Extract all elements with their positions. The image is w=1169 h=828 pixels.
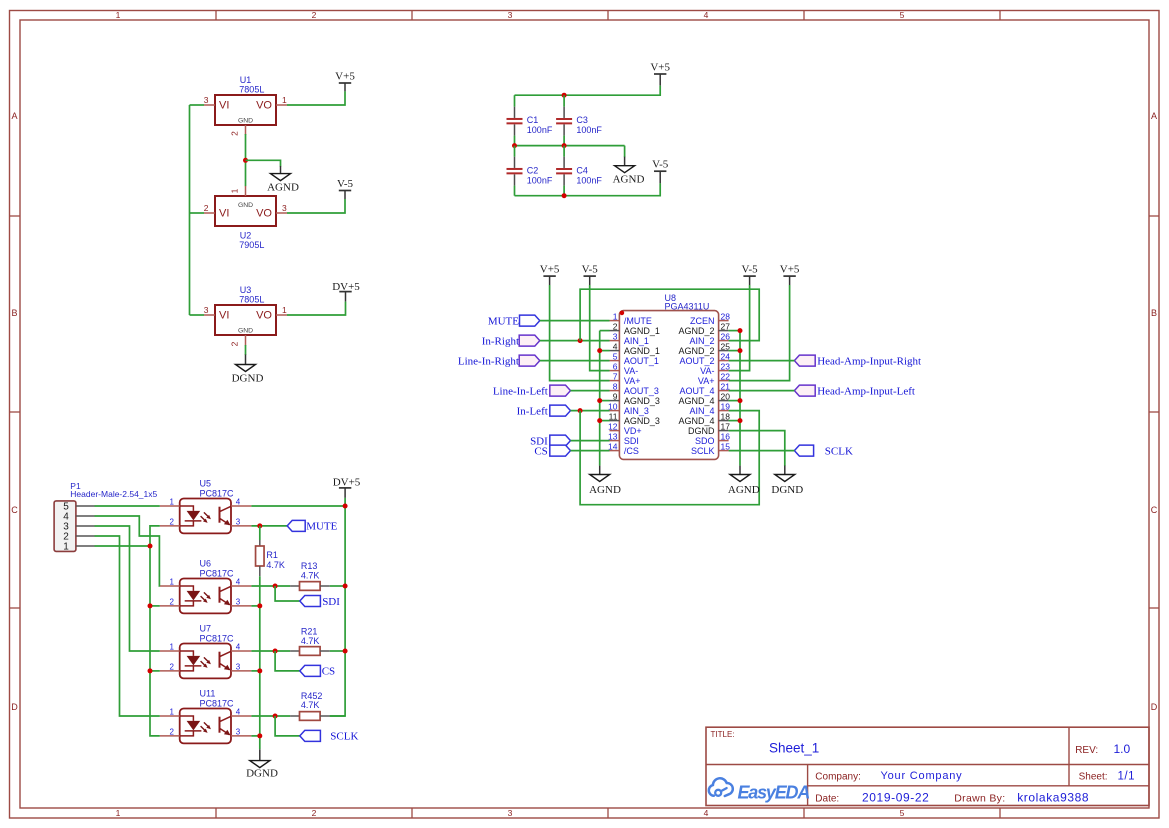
svg-text:1: 1 xyxy=(170,643,175,652)
voltage regulator U2 7905L xyxy=(215,196,276,250)
svg-text:CS: CS xyxy=(534,445,547,457)
U1 pin 2 GND xyxy=(230,125,246,136)
U8 pin 22 VA+ xyxy=(698,371,730,386)
svg-text:4.7K: 4.7K xyxy=(301,571,320,581)
svg-text:3: 3 xyxy=(204,95,209,105)
junction DGND bus U6.3 xyxy=(257,603,262,608)
svg-text:1: 1 xyxy=(170,498,175,507)
wire P1.1 to cathode bus xyxy=(95,545,151,547)
frame column labels xyxy=(116,10,905,818)
svg-text:MUTE: MUTE xyxy=(306,521,337,533)
wire pin21 AOUT_4 to Head-Amp-Input-Left xyxy=(729,390,795,392)
op-amp volume IC U8 PGA4311U body xyxy=(619,293,718,459)
svg-text:4: 4 xyxy=(704,808,709,818)
svg-text:4: 4 xyxy=(704,10,709,20)
junction port tap R21 xyxy=(273,649,278,654)
wire U pin4 row R21 xyxy=(251,650,345,652)
junction mid rail C3 xyxy=(562,143,567,148)
svg-text:U2: U2 xyxy=(240,231,252,241)
junction cathode bus U6.2 xyxy=(148,603,153,608)
svg-text:PGA4311U: PGA4311U xyxy=(665,301,710,311)
svg-text:Your Company: Your Company xyxy=(881,770,963,782)
U8 pin 16 SDO xyxy=(695,431,730,446)
wire U1 input rail vertical xyxy=(189,105,191,315)
wire MUTE to pin1 xyxy=(540,320,610,322)
U6 pin 3 xyxy=(231,597,251,606)
U8 pin1 marker dot xyxy=(620,311,625,316)
svg-text:VO: VO xyxy=(256,310,272,322)
svg-text:DGND: DGND xyxy=(688,426,715,436)
svg-text:1: 1 xyxy=(613,311,618,321)
optocoupler U11 PC817C xyxy=(180,689,234,744)
U7 pin 2 xyxy=(160,662,180,671)
svg-text:VI: VI xyxy=(219,310,229,322)
svg-text:5: 5 xyxy=(900,808,905,818)
svg-text:SDO: SDO xyxy=(695,436,715,446)
svg-text:3: 3 xyxy=(613,331,618,341)
U8 pin 14 /CS xyxy=(608,441,639,456)
header connector P1 Header-Male-2.54_1x5 xyxy=(54,481,157,552)
U11 pin 4 xyxy=(231,708,251,717)
svg-text:V+5: V+5 xyxy=(335,71,355,83)
svg-text:GND: GND xyxy=(238,327,253,334)
U8 pin 19 AIN_4 xyxy=(689,401,730,416)
port Line-In-Left xyxy=(493,385,571,397)
wire AGND branch xyxy=(246,160,281,166)
svg-text:AIN_1: AIN_1 xyxy=(624,336,649,346)
P1 pin 4 xyxy=(63,512,94,523)
svg-text:4: 4 xyxy=(236,498,241,507)
wire In-Right to pin3 xyxy=(540,340,610,342)
junction mid rail C1 xyxy=(512,143,517,148)
svg-text:AGND_4: AGND_4 xyxy=(678,396,714,406)
U8 pin 1 /MUTE xyxy=(610,311,652,326)
U8 pin 3 AIN_1 xyxy=(610,331,649,346)
wire P1.3 to U7 pin1 xyxy=(95,526,160,651)
frame row labels xyxy=(11,111,1158,712)
U6 pin 1 xyxy=(160,578,180,587)
resistor R452 4.7K xyxy=(290,691,330,720)
wire U5 pin3 to MUTE port xyxy=(251,525,287,527)
svg-text:DV+5: DV+5 xyxy=(332,281,360,293)
power flag DV+5 at optos xyxy=(333,476,361,498)
svg-text:AIN_4: AIN_4 xyxy=(689,406,714,416)
wire branch to SDI port xyxy=(275,586,300,601)
svg-text:AGND: AGND xyxy=(728,484,760,496)
svg-text:1.0: 1.0 xyxy=(1114,742,1131,756)
U8 pin 21 AOUT_4 xyxy=(679,381,730,396)
wire U3 GND down xyxy=(245,345,247,355)
junction cathode bus P1.1 xyxy=(148,544,153,549)
svg-text:16: 16 xyxy=(721,431,731,441)
ground AGND at caps xyxy=(613,157,645,186)
svg-text:VO: VO xyxy=(256,100,272,112)
junction DGND bus U11.3 xyxy=(257,733,262,738)
svg-text:100nF: 100nF xyxy=(527,176,553,186)
svg-text:PC817C: PC817C xyxy=(200,569,235,579)
svg-text:V-5: V-5 xyxy=(582,264,599,276)
svg-text:C4: C4 xyxy=(576,166,588,176)
U8 pin 24 AOUT_2 xyxy=(679,351,730,366)
svg-text:U6: U6 xyxy=(200,559,212,569)
svg-text:AGND_2: AGND_2 xyxy=(678,326,714,336)
power flag V-5 at U2 xyxy=(337,178,354,199)
svg-text:1: 1 xyxy=(230,188,240,193)
wire Line-In-Left to pin8 xyxy=(571,390,610,392)
svg-text:1: 1 xyxy=(116,10,121,20)
svg-text:AOUT_3: AOUT_3 xyxy=(624,386,659,396)
junction bottom rail C4 xyxy=(562,193,567,198)
svg-text:U7: U7 xyxy=(200,624,212,634)
svg-text:Sheet_1: Sheet_1 xyxy=(769,741,819,756)
svg-text:VI: VI xyxy=(219,208,229,220)
svg-text:3: 3 xyxy=(236,597,241,606)
port MUTE at opto xyxy=(287,520,337,532)
U8 pin 25 AGND_2 xyxy=(678,341,730,356)
svg-text:B: B xyxy=(11,308,17,318)
U11 pin 3 xyxy=(231,727,251,736)
svg-text:2: 2 xyxy=(312,808,317,818)
svg-text:3: 3 xyxy=(508,10,513,20)
title block Date and Drawn By xyxy=(815,790,1089,804)
port SCLK at U8 xyxy=(794,445,853,457)
svg-text:11: 11 xyxy=(609,411,618,421)
svg-text:MUTE: MUTE xyxy=(488,315,519,327)
svg-text:CS: CS xyxy=(322,666,335,678)
svg-text:V+5: V+5 xyxy=(650,62,670,74)
U2 pin 3 VO xyxy=(276,203,287,213)
svg-text:3: 3 xyxy=(204,305,209,315)
junction right AGND pin27 xyxy=(738,328,743,333)
junction DGND bus U7.3 xyxy=(257,668,262,673)
svg-text:AGND_4: AGND_4 xyxy=(678,416,714,426)
svg-text:7805L: 7805L xyxy=(239,84,264,94)
power flag V+5 left of U8 xyxy=(540,264,560,285)
svg-text:4.7K: 4.7K xyxy=(301,636,320,646)
svg-text:2: 2 xyxy=(170,597,175,606)
wire mid rail AGND xyxy=(515,145,625,147)
svg-text:8: 8 xyxy=(613,381,618,391)
capacitor C1 100nF xyxy=(507,95,553,145)
svg-text:Head-Amp-Input-Right: Head-Amp-Input-Right xyxy=(817,355,921,367)
power flag V+5 at caps xyxy=(650,62,670,86)
P1 pin 1 xyxy=(63,542,94,553)
U5 pin 4 xyxy=(231,498,251,507)
svg-text:3: 3 xyxy=(508,808,513,818)
U8 pin 18 AGND_4 xyxy=(678,411,730,426)
svg-text:5: 5 xyxy=(613,351,618,361)
svg-text:U5: U5 xyxy=(200,479,212,489)
svg-text:D: D xyxy=(11,702,18,712)
svg-text:R21: R21 xyxy=(301,627,318,637)
svg-text:U11: U11 xyxy=(200,689,216,699)
U6 pin 4 xyxy=(231,578,251,587)
optocoupler U7 PC817C xyxy=(180,624,234,679)
svg-text:SDI: SDI xyxy=(322,596,340,608)
svg-text:AOUT_1: AOUT_1 xyxy=(624,356,659,366)
svg-text:7905L: 7905L xyxy=(239,240,264,250)
junction R1 top tap xyxy=(257,523,262,528)
junction right AGND pin25 xyxy=(738,348,743,353)
wire U1 VO to V+5 xyxy=(287,91,345,105)
svg-text:4: 4 xyxy=(236,578,241,587)
svg-text:C2: C2 xyxy=(527,166,539,176)
wire branch to SCLK port xyxy=(275,716,300,736)
svg-text:2: 2 xyxy=(312,10,317,20)
ground AGND below U8 right xyxy=(728,466,760,496)
svg-text:VI: VI xyxy=(219,100,229,112)
svg-text:AIN_2: AIN_2 xyxy=(689,336,714,346)
svg-text:3: 3 xyxy=(282,203,287,213)
wire DGND bus at optos xyxy=(251,576,259,749)
svg-text:krolaka9388: krolaka9388 xyxy=(1017,790,1089,804)
U8 pin 13 SDI xyxy=(608,431,639,446)
wire V+5 to U8 pin22 VA+ xyxy=(729,285,790,381)
svg-text:1: 1 xyxy=(170,708,175,717)
U7 pin 1 xyxy=(160,643,180,652)
svg-text:4.7K: 4.7K xyxy=(266,560,285,570)
svg-text:AOUT_4: AOUT_4 xyxy=(679,386,714,396)
svg-text:ZCEN: ZCEN xyxy=(690,316,715,326)
U8 pin 4 AGND_1 xyxy=(610,341,660,356)
port SDI at opto xyxy=(300,596,340,608)
port MUTE at U8 xyxy=(488,315,540,327)
P1 pin 2 xyxy=(63,532,94,543)
svg-text:1: 1 xyxy=(63,542,69,553)
wire branch to CS port xyxy=(275,651,300,671)
junction at U1/U2 GND node xyxy=(243,158,248,163)
wire U pin4 row R452 xyxy=(251,715,345,717)
U1 pin 1 VO xyxy=(276,95,287,105)
svg-text:A: A xyxy=(1151,111,1157,121)
svg-text:V-5: V-5 xyxy=(337,178,354,190)
power flag V-5 left of U8 xyxy=(582,264,599,285)
junction top rail C3 xyxy=(562,93,567,98)
svg-text:C1: C1 xyxy=(527,115,539,125)
svg-text:AGND: AGND xyxy=(589,484,621,496)
junction right AGND pin18 xyxy=(738,418,743,423)
svg-text:V+5: V+5 xyxy=(780,264,800,276)
wire U2 pin2 stub xyxy=(190,212,205,214)
svg-text:Drawn By:: Drawn By: xyxy=(954,793,1005,805)
power flag V+5 at U1 xyxy=(335,71,355,92)
svg-text:2: 2 xyxy=(230,341,240,346)
svg-text:12: 12 xyxy=(608,421,618,431)
wire U5 pin4 to DV+5 xyxy=(251,505,345,507)
wire U1 pin3 stub xyxy=(190,104,205,106)
P1 pin 5 xyxy=(63,502,94,513)
U1 pin 3 VI xyxy=(204,95,215,105)
svg-text:4: 4 xyxy=(236,708,241,717)
wire V-5 to U8 pin23 VA- xyxy=(729,285,750,371)
svg-text:PC817C: PC817C xyxy=(200,699,235,709)
power flag V-5 at caps xyxy=(652,159,669,184)
svg-text:9: 9 xyxy=(613,391,618,401)
svg-text:EasyEDA: EasyEDA xyxy=(738,783,810,803)
wire U pin4 row R13 xyxy=(251,585,345,587)
U5 pin 3 xyxy=(231,517,251,526)
svg-text:GND: GND xyxy=(238,117,253,124)
ground AGND below U8 left xyxy=(589,466,621,496)
junction left AGND pin4 xyxy=(597,348,602,353)
voltage regulator U3 7805L xyxy=(215,285,276,335)
svg-text:100nF: 100nF xyxy=(576,125,602,135)
svg-text:2: 2 xyxy=(230,131,240,136)
optocoupler U5 PC817C xyxy=(180,479,234,534)
ground DGND at optos xyxy=(246,749,278,779)
port In-Left xyxy=(517,405,571,417)
resistor R21 4.7K xyxy=(290,627,330,656)
svg-text:2: 2 xyxy=(170,662,175,671)
U2 pin 2 VI xyxy=(204,203,215,213)
wire U3 VO to DV+5 xyxy=(287,302,346,315)
svg-text:/CS: /CS xyxy=(624,446,639,456)
svg-text:5: 5 xyxy=(900,10,905,20)
voltage regulator U1 7805L xyxy=(215,75,276,125)
wire U1 GND to U2 GND xyxy=(245,134,247,186)
wire AGND branch at caps xyxy=(624,146,626,158)
svg-text:AGND_1: AGND_1 xyxy=(624,346,660,356)
svg-text:2: 2 xyxy=(170,727,175,736)
junction In-Left / AIN_4 tap xyxy=(578,408,583,413)
svg-text:VD+: VD+ xyxy=(624,426,642,436)
wire In-Right to pin26 AIN_2 xyxy=(580,289,759,340)
wire U8 left AGND bus xyxy=(600,331,610,466)
wire U8 pin17 DGND xyxy=(729,431,785,466)
optocoupler U6 PC817C xyxy=(180,559,234,614)
svg-text:2: 2 xyxy=(170,517,175,526)
U11 pin 2 xyxy=(160,727,180,736)
wire pin15 SCLK to port xyxy=(729,450,795,452)
svg-text:SCLK: SCLK xyxy=(330,731,358,743)
port Head-Amp-Input-Right xyxy=(794,355,921,367)
svg-text:4: 4 xyxy=(236,643,241,652)
wire U3 pin3 stub xyxy=(190,314,205,316)
svg-text:2: 2 xyxy=(613,321,618,331)
svg-text:Line-In-Left: Line-In-Left xyxy=(493,385,548,397)
power flag V+5 right of U8 xyxy=(780,264,800,285)
svg-text:2019-09-22: 2019-09-22 xyxy=(862,790,929,804)
svg-text:VO: VO xyxy=(256,208,272,220)
U8 pin 7 VA+ xyxy=(610,371,641,386)
port CS at U8 xyxy=(534,445,570,457)
wire V+5 top rail xyxy=(515,86,661,96)
svg-text:AIN_3: AIN_3 xyxy=(624,406,649,416)
svg-text:3: 3 xyxy=(236,662,241,671)
U5 pin 2 xyxy=(160,517,180,526)
svg-text:SCLK: SCLK xyxy=(691,446,715,456)
U8 pin 28 ZCEN xyxy=(690,311,730,326)
U6 pin 2 xyxy=(160,597,180,606)
port Line-In-Right xyxy=(458,355,540,367)
svg-text:AGND_3: AGND_3 xyxy=(624,416,660,426)
capacitor C3 100nF xyxy=(556,95,602,145)
port Head-Amp-Input-Left xyxy=(794,385,915,397)
svg-text:4.7K: 4.7K xyxy=(301,700,320,710)
U7 pin 3 xyxy=(231,662,251,671)
P1 pin 3 xyxy=(63,522,94,533)
U8 pin 27 AGND_2 xyxy=(678,321,730,336)
wire P1.5 to U5 pin1 xyxy=(95,505,160,507)
svg-text:B: B xyxy=(1151,308,1157,318)
svg-text:C3: C3 xyxy=(576,115,588,125)
junction In-Right / AIN_2 tap xyxy=(578,338,583,343)
U8 pin 5 AOUT_1 xyxy=(610,351,659,366)
wire U8 right AGND bus xyxy=(729,331,740,466)
ground DGND below U8 xyxy=(771,466,803,496)
port SCLK at opto xyxy=(300,730,359,742)
U3 pin 3 VI xyxy=(204,305,215,315)
wire pin24 AOUT_2 to Head-Amp-Input-Right xyxy=(729,360,795,362)
wire U2 VO to V-5 xyxy=(287,199,345,213)
title block xyxy=(706,727,1149,805)
svg-text:28: 28 xyxy=(721,311,731,321)
svg-text:1/1: 1/1 xyxy=(1118,770,1136,782)
svg-text:C: C xyxy=(11,505,18,515)
junction port tap R452 xyxy=(273,714,278,719)
svg-text:VA+: VA+ xyxy=(698,376,715,386)
U8 pin 10 AIN_3 xyxy=(608,401,649,416)
port SDI at U8 xyxy=(530,435,570,447)
wire V+5 to U8 pin7 VA+ xyxy=(550,285,610,381)
svg-text:4: 4 xyxy=(613,341,618,351)
wire P1.4 to U6 pin1 xyxy=(95,516,160,586)
svg-text:In-Right: In-Right xyxy=(482,335,519,347)
U8 pin 11 AGND_3 xyxy=(609,411,660,426)
svg-text:1: 1 xyxy=(116,808,121,818)
U8 pin 26 AIN_2 xyxy=(689,331,730,346)
svg-text:1: 1 xyxy=(282,95,287,105)
U8 pin 20 AGND_4 xyxy=(678,391,730,406)
svg-text:V-5: V-5 xyxy=(652,159,669,171)
svg-text:AGND_2: AGND_2 xyxy=(678,346,714,356)
wire DV+5 rail xyxy=(330,498,345,716)
svg-text:R1: R1 xyxy=(266,550,278,560)
svg-text:Date:: Date: xyxy=(815,794,839,805)
U3 pin 1 VO xyxy=(276,305,287,315)
svg-text:PC817C: PC817C xyxy=(200,634,235,644)
U2 pin 1 GND xyxy=(230,186,246,196)
wire In-Left to pin19 AIN_4 xyxy=(580,411,759,505)
svg-text:2: 2 xyxy=(204,203,209,213)
U8 pin 8 AOUT_3 xyxy=(610,381,659,396)
svg-text:7805L: 7805L xyxy=(239,294,264,304)
svg-text:7: 7 xyxy=(613,371,618,381)
svg-text:1: 1 xyxy=(282,305,287,315)
junction left AGND pin9 xyxy=(597,398,602,403)
U8 pin 23 VA- xyxy=(700,361,730,376)
title block REV xyxy=(1075,742,1130,756)
svg-text:100nF: 100nF xyxy=(576,176,602,186)
port In-Right xyxy=(482,335,540,347)
title block Sheet number xyxy=(1079,770,1135,782)
svg-text:VA+: VA+ xyxy=(624,376,641,386)
power flag DV+5 at U3 xyxy=(332,281,360,302)
svg-text:V+5: V+5 xyxy=(540,264,560,276)
U8 pin 6 VA- xyxy=(610,361,639,376)
svg-text:DGND: DGND xyxy=(232,372,264,384)
svg-text:6: 6 xyxy=(613,361,618,371)
svg-text:AGND: AGND xyxy=(267,182,299,194)
svg-text:Sheet:: Sheet: xyxy=(1079,772,1108,783)
svg-text:In-Left: In-Left xyxy=(517,405,548,417)
junction DV+5 R13 xyxy=(343,584,348,589)
U8 pin 2 AGND_1 xyxy=(610,321,660,336)
EasyEDA logo xyxy=(709,778,810,802)
svg-text:SDI: SDI xyxy=(624,436,639,446)
wire SDI to pin13 xyxy=(571,440,610,442)
wire V-5 to U8 pin6 VA- xyxy=(590,285,610,371)
